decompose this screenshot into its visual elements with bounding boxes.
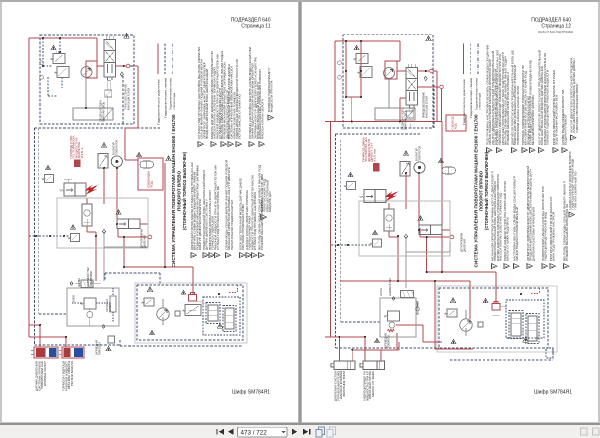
svg-text:315 к: 315 к (80, 146, 84, 159)
svg-text:САПУН: САПУН (379, 288, 383, 296)
svg-text:ПОВОРОТЫ: ПОВОРОТЫ (387, 334, 391, 348)
svg-text:ПЕРЕПУСКНОЙ ПРЕДОХРАНИТЕЛ: ПЕРЕПУСКНОЙ ПРЕДОХРАНИТЕЛ (230, 200, 234, 250)
svg-text:ГИДРОЦИЛИНДР РАБОЧЕЙ ЖИД: ГИДРОЦИЛИНДР РАБОЧЕЙ ЖИД (544, 212, 548, 261)
svg-text:ПРИ КПА ОБРАТНЫЙ ПО: ПРИ КПА ОБРАТНЫЙ ПО (573, 171, 577, 210)
svg-text:ОБ ПИТАНИЯ: ОБ ПИТАНИЯ (416, 301, 420, 315)
svg-text:ЗАВЕЛИРОВАН: ЗАВЕЛИРОВАН (89, 271, 93, 287)
svg-text:Шифр SM784Я1: Шифр SM784Я1 (232, 390, 270, 396)
svg-text:ФИЛЬТР: ФИЛЬТР (108, 302, 112, 312)
svg-text:КЛАПАН ЗОЛОТ: КЛАПАН ЗОЛОТ (43, 361, 47, 386)
svg-text:ПОТОК МАСЛА ОТ БАКА ПО: ПОТОК МАСЛА ОТ БАКА ПО (238, 93, 242, 139)
svg-text:ГОРИЗОНТА: ГОРИЗОНТА (98, 342, 102, 355)
svg-text:слива воды: слива воды (173, 93, 176, 110)
svg-text:ТОРМОЗА ГИДРОЦИЛИНДР РАБОЧЕЙ Ж: ТОРМОЗА ГИДРОЦИЛИНДР РАБОЧЕЙ ЖИДКОСТИ (546, 70, 550, 145)
svg-text:Гидравлическое давление: Гидравлическое давление (156, 78, 160, 125)
svg-text:ЛИНИЯ ПОДАЧИ РУЛЕВОЙ МЕХАНИ: ЛИНИЯ ПОДАЧИ РУЛЕВОЙ МЕХАНИ (515, 207, 519, 261)
svg-text:ХОД: ХОД (454, 123, 458, 129)
svg-text:ДАВЛЕНИЯ: ДАВЛЕНИЯ (143, 235, 147, 248)
svg-text:ФИКСАЦИИ ЗЕМЛИ: ФИКСАЦИИ ЗЕМЛИ (127, 88, 131, 110)
svg-text:МЕХАНИЗМ ОРБИТРОЛ ЗАПРАВК: МЕХАНИЗМ ОРБИТРОЛ ЗАПРАВК (531, 95, 535, 145)
svg-text:Страница 12: Страница 12 (541, 24, 571, 30)
svg-text:МАСЛА ОТ БАКА ПОД ПРУЖ: МАСЛА ОТ БАКА ПОД ПРУЖ (506, 217, 510, 261)
svg-text:НАЖИМНОЙ УЗЕЛ: НАЖИМНОЙ УЗЕЛ (388, 278, 392, 296)
svg-text:РУЛЕВОЙ МЕХАНИЗМ ОРБИТРОЛ ЗА: РУЛЕВОЙ МЕХАНИЗМ ОРБИТРОЛ ЗА (565, 204, 569, 261)
svg-text:СИСТЕМЫ УПРАВЛЕНИЯ ПОВОР: СИСТЕМЫ УПРАВЛЕНИЯ ПОВОР (575, 84, 579, 133)
svg-text:ФИКСАЦИИ ЗЕМЛИ: ФИКСАЦИИ ЗЕМЛИ (425, 96, 429, 118)
svg-text:БЛОК: БЛОК (72, 295, 76, 302)
svg-text:ПРЕДОХРАНИТЕЛЬНЫЙ БЛОК ШЕСТЕРЕ: ПРЕДОХРАНИТЕЛЬНЫЙ БЛОК ШЕСТЕРЕННЫЙ (205, 69, 209, 139)
svg-text:31S км: 31S км (372, 149, 376, 162)
svg-text:ПОВОРОТАМИ НАСОСА КЛАПАН ЗОЛО: ПОВОРОТАМИ НАСОСА КЛАПАН ЗОЛО (516, 85, 520, 145)
svg-text:ЗОЛОТНИК ТОРМ: ЗОЛОТНИК ТОРМ (342, 370, 346, 397)
svg-text:ЖИДКОСТИ ПРИ КПА: ЖИДКОСТИ ПРИ КПА (270, 81, 274, 113)
svg-text:ПОТОК МАСЛА: ПОТОК МАСЛА (70, 361, 74, 386)
svg-text:слива воды: слива воды (479, 93, 482, 110)
svg-text:НАСОСА КЛАПАН ЗОЛОТН: НАСОСА КЛАПАН ЗОЛОТН (261, 99, 265, 139)
svg-text:(СТОЯНОЧНЫЙ ТОРМОЗ ВЫКЛЮЧЕН): (СТОЯНОЧНЫЙ ТОРМОЗ ВЫКЛЮЧЕН) (182, 151, 187, 230)
svg-text:МАСЛА ОТ БАКА: МАСЛА ОТ БАКА (371, 371, 375, 397)
svg-text:Гидравлические линии: Гидравлические линии (469, 77, 473, 118)
svg-text:Гидравлические линии: Гидравлические линии (163, 77, 167, 118)
svg-text:Шифр SM784Я1: Шифр SM784Я1 (534, 390, 572, 396)
svg-text:МОДУЛЬ ДАТ: МОДУЛЬ ДАТ (268, 191, 272, 212)
svg-text:ОТ БАКА ПОД ПРУЖИНЫ НАСТРОЙКА: ОТ БАКА ПОД ПРУЖИНЫ НАСТРОЙКА ВЕ (216, 186, 220, 250)
svg-text:ПОВОРОТОВ: ПОВОРОТОВ (418, 146, 422, 161)
svg-text:Гидравлическое давление: Гидравлическое давление (462, 78, 466, 125)
svg-text:(СТОЯНОЧНЫЙ ТОРМОЗ ВЫКЛЮЧЕН): (СТОЯНОЧНЫЙ ТОРМОЗ ВЫКЛЮЧЕН) (484, 151, 489, 230)
svg-text:БАКА ПОД ПРУЖИНЫ НАСТРОЙ: БАКА ПОД ПРУЖИНЫ НАСТРОЙ (552, 212, 556, 261)
svg-text:ПОДАЧИ РУЛЕВОЙ: ПОДАЧИ РУЛЕВОЙ (564, 115, 568, 145)
svg-text:ОБРАТНАЯ СВЯЗЬ: ОБРАТНАЯ СВЯЗЬ (102, 102, 106, 122)
svg-text:ПОВОРОТОВ: ПОВОРОТОВ (115, 140, 119, 155)
svg-text:ОБРАТНАЯ СВЯЗЬ: ОБРАТНАЯ СВЯЗЬ (404, 110, 408, 130)
svg-text:МАСЛА ОТ БАКА ПОД ПРУЖИНЫ: МАСЛА ОТ БАКА ПОД ПРУЖИНЫ (538, 30, 573, 34)
svg-text:ДАВЛЕНИЯ СИСТЕМЫ УПРАВЛЕНИЯ: ДАВЛЕНИЯ СИСТЕМЫ УПРАВЛЕНИЯ (531, 207, 535, 261)
svg-text:НАСОСА КЛАПАН ЗОЛОТНИК ТОРМОЗА: НАСОСА КЛАПАН ЗОЛОТНИК ТОРМОЗА ГИД (499, 193, 503, 261)
svg-text:ЦАПФА: ЦАПФА (77, 278, 81, 287)
svg-text:ХОД: ХОД (150, 181, 154, 188)
svg-text:ДАВЛЕНИЯ: ДАВЛЕНИЯ (463, 239, 467, 252)
svg-text:473 / 722: 473 / 722 (241, 429, 268, 436)
svg-text:ПОД ПРУЖИНЫ НАСТРОЙКА ВЕН: ПОД ПРУЖИНЫ НАСТРОЙКА ВЕН (555, 95, 559, 145)
svg-text:Страница 11: Страница 11 (241, 24, 270, 30)
